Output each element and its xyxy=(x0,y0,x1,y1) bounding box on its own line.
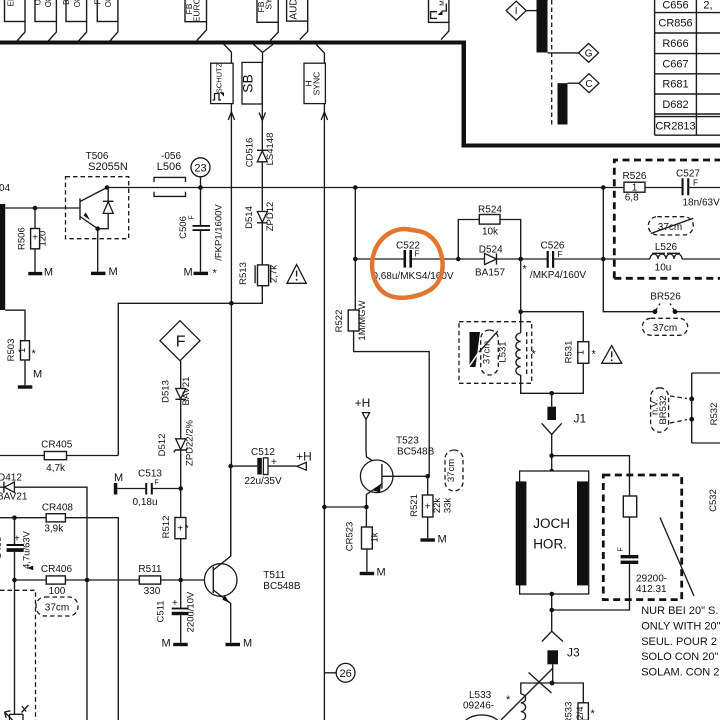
wire R503 bottom xyxy=(24,360,26,385)
thick bar left edge xyxy=(0,204,5,310)
svg-text:R533: R533 xyxy=(564,702,575,720)
svg-text:F: F xyxy=(693,178,698,188)
svg-text:29200-: 29200- xyxy=(636,574,667,585)
svg-text:SCHUTZ: SCHUTZ xyxy=(215,62,224,93)
wire stub box E3 xyxy=(78,22,87,42)
svg-text:M: M xyxy=(162,638,171,650)
connector box FB EURO xyxy=(184,0,207,22)
inductor L533 xyxy=(463,690,526,720)
damper diode T506 xyxy=(98,188,114,229)
resistor R513 (safety) xyxy=(238,262,280,286)
wire collector T523 xyxy=(366,420,382,467)
resistor kit xyxy=(623,496,636,517)
wire C511 bottom xyxy=(180,615,182,643)
wire stub box E2 xyxy=(48,22,57,42)
wire schutz line to T511 - already drawn above continues xyxy=(230,303,233,556)
wire base T506 xyxy=(5,207,80,209)
wire stub box E1 xyxy=(17,22,26,42)
svg-text:*: * xyxy=(185,524,189,535)
svg-text:EURO: EURO xyxy=(192,0,202,22)
svg-text:F: F xyxy=(176,334,186,351)
diode D514 ZPD12 xyxy=(244,202,276,232)
svg-text:F: F xyxy=(155,480,159,487)
connector box E2 xyxy=(34,0,57,22)
svg-text:2/4: 2/4 xyxy=(575,706,586,719)
node dot JOCH bottom edge xyxy=(549,592,554,597)
svg-text:SOLAM. CON 2: SOLAM. CON 2 xyxy=(641,667,719,679)
+H arrow C512 xyxy=(296,450,312,471)
node dot J3 top xyxy=(549,608,554,613)
wire emitter row xyxy=(324,507,366,527)
svg-text:M: M xyxy=(438,533,447,545)
svg-text:M: M xyxy=(243,638,252,650)
node dot L533 top xyxy=(550,681,555,686)
wire main horizontal y187 left part xyxy=(107,187,185,189)
wire vertical R526 to C526 row xyxy=(602,188,604,260)
wire R526 row xyxy=(603,187,720,189)
svg-text:23: 23 xyxy=(194,162,206,174)
svg-text:BC548B: BC548B xyxy=(263,581,301,592)
connector J3 xyxy=(542,610,580,664)
svg-text:R506: R506 xyxy=(17,227,28,250)
node dot JOCH top edge xyxy=(549,469,554,474)
svg-text:37cm: 37cm xyxy=(446,459,457,482)
node dot R513 bottom junction xyxy=(229,301,234,306)
ground M T506 xyxy=(91,266,118,278)
svg-text:C408: C408 xyxy=(0,537,4,560)
thick vertical border bar xyxy=(462,41,467,145)
terminal circle 23 xyxy=(191,158,210,188)
svg-text:CR406: CR406 xyxy=(41,564,73,575)
wire kit r to c xyxy=(629,517,631,555)
svg-text:C511: C511 xyxy=(156,600,167,622)
connector box SCHUTZ xyxy=(211,62,233,103)
svg-text:R524: R524 xyxy=(478,204,502,215)
node dot R511 junction xyxy=(178,578,183,583)
dashed wire lower left xyxy=(0,590,36,720)
svg-text:CR856: CR856 xyxy=(658,18,692,30)
svg-text:330: 330 xyxy=(144,586,161,597)
svg-text:26: 26 xyxy=(339,668,351,680)
bridge BR526 xyxy=(650,292,681,315)
svg-text:C656: C656 xyxy=(662,0,688,12)
capacitor C506 xyxy=(178,204,225,261)
wire C506 top xyxy=(200,188,202,226)
connector box E1 xyxy=(5,0,26,22)
capacitor C408 4,7u/63V xyxy=(0,530,33,569)
svg-text:LS4148: LS4148 xyxy=(265,133,276,166)
svg-text:/MKP4/160V: /MKP4/160V xyxy=(530,270,586,281)
resistor R503 xyxy=(6,339,42,381)
svg-text:R531: R531 xyxy=(564,341,575,364)
ground M R521 xyxy=(420,533,446,545)
resistor CR406 xyxy=(41,564,73,597)
wire F to D513 xyxy=(180,361,182,389)
svg-text:+: + xyxy=(172,598,178,609)
ground plate C513 xyxy=(114,483,118,495)
svg-text:C513: C513 xyxy=(138,468,162,479)
svg-text:L526: L526 xyxy=(655,242,678,253)
svg-text:1k: 1k xyxy=(370,532,381,542)
svg-text:R511: R511 xyxy=(138,564,162,575)
transistor T523 xyxy=(360,436,434,507)
svg-text:412.31: 412.31 xyxy=(636,584,667,595)
svg-text:04: 04 xyxy=(0,183,11,194)
svg-text:CR408: CR408 xyxy=(42,503,74,514)
svg-text:*: * xyxy=(32,348,37,360)
svg-text:D682: D682 xyxy=(662,99,688,111)
correction wedge xyxy=(470,332,481,367)
node dot J1 top xyxy=(549,391,554,396)
node dot CR408 left xyxy=(12,515,17,520)
dashed box T506 xyxy=(66,177,129,239)
svg-text:22u/35V: 22u/35V xyxy=(244,476,282,487)
svg-text:NUR BEI 20" S.: NUR BEI 20" S. xyxy=(641,605,718,617)
dashed oval 37cm L531 xyxy=(481,330,499,375)
svg-text:1M/MGW: 1M/MGW xyxy=(357,300,368,340)
dashed oval 37cm lower left xyxy=(36,597,78,616)
capacitor kit xyxy=(618,547,639,564)
svg-text:R681: R681 xyxy=(662,79,688,91)
svg-text:JOCH: JOCH xyxy=(533,516,570,531)
arrow up h line xyxy=(321,112,327,120)
sb branch fork xyxy=(254,45,273,64)
ground M C511 xyxy=(162,638,188,650)
wire J1 to JOCH xyxy=(551,435,553,472)
wire R522 bottom to T523 base xyxy=(354,331,430,476)
svg-text:22k: 22k xyxy=(432,498,443,514)
zener D512 ZPD22 xyxy=(157,419,196,465)
dashed line top right xyxy=(551,0,553,126)
capacitor C512 xyxy=(231,447,297,487)
svg-text:BAV21: BAV21 xyxy=(0,492,28,503)
svg-text:1: 1 xyxy=(17,348,28,353)
resistor CR523 xyxy=(345,522,381,552)
svg-text:R526: R526 xyxy=(623,171,647,182)
node dot main wire R522 tap xyxy=(353,185,358,190)
svg-text:M: M xyxy=(33,369,42,381)
node dot L531 top xyxy=(518,309,523,314)
svg-text:L531: L531 xyxy=(498,341,509,362)
node dot T506 collector xyxy=(105,185,110,190)
svg-text:/FKP1/1600V: /FKP1/1600V xyxy=(214,204,225,261)
svg-text:C506: C506 xyxy=(178,216,189,239)
svg-text:*: * xyxy=(523,263,528,275)
svg-text:37cm: 37cm xyxy=(653,323,677,334)
svg-text:D514: D514 xyxy=(244,206,255,229)
svg-text:M: M xyxy=(439,0,446,5)
svg-text:33k: 33k xyxy=(443,498,454,514)
annotation orange circle around C522 xyxy=(372,229,443,298)
wire R524 loop xyxy=(458,220,520,260)
svg-text:D513: D513 xyxy=(160,380,171,403)
dashed oval 37cm BR526 xyxy=(642,318,687,335)
wire stub icon box xyxy=(441,22,449,39)
svg-text:1: 1 xyxy=(575,350,586,355)
resistor R521 xyxy=(409,494,454,517)
ground M R506 xyxy=(28,266,53,278)
diode D513 BAV21 xyxy=(160,377,192,406)
svg-text:*: * xyxy=(591,708,596,720)
svg-text:*: * xyxy=(532,349,537,361)
wire L531 top to R531 xyxy=(521,312,584,342)
capacitor C522 xyxy=(372,240,453,282)
wire R503 top xyxy=(5,310,25,341)
node dot R506 tap xyxy=(33,206,38,211)
arrow +H T523 xyxy=(362,413,369,420)
ground M T511 xyxy=(226,638,253,650)
svg-text:ZPD22/2%: ZPD22/2% xyxy=(185,419,196,465)
svg-text:CR523: CR523 xyxy=(345,522,356,552)
wire to J1 xyxy=(551,393,553,406)
svg-text:C512: C512 xyxy=(251,447,275,458)
svg-text:O8: O8 xyxy=(104,0,113,7)
slash through wedge and oval xyxy=(469,352,479,367)
wire R506 top xyxy=(34,208,36,229)
svg-text:T511: T511 xyxy=(263,570,285,581)
arrow down sb xyxy=(259,113,265,121)
connector J1 xyxy=(542,407,587,435)
svg-text:2,: 2, xyxy=(703,0,712,12)
wire I to bar xyxy=(526,10,536,12)
svg-text:*: * xyxy=(213,268,218,280)
connector box SB xyxy=(240,62,263,104)
ground M C506 xyxy=(184,267,218,280)
diamond I xyxy=(506,1,526,20)
svg-text:C: C xyxy=(585,79,592,90)
node dot CR406 left xyxy=(12,578,17,583)
resistor R531 xyxy=(564,341,597,364)
leader line kit note xyxy=(660,518,694,597)
svg-text:+: + xyxy=(14,534,20,545)
svg-text:ONLY WITH 20": ONLY WITH 20" xyxy=(641,620,720,632)
wire C506 bottom xyxy=(200,231,202,272)
svg-text:ZPD12: ZPD12 xyxy=(265,202,276,232)
parts table top right xyxy=(655,0,720,135)
svg-text:J1: J1 xyxy=(574,411,587,425)
svg-text:F: F xyxy=(189,215,196,219)
svg-text:C532: C532 xyxy=(708,489,719,512)
wire vertical to C522 row xyxy=(355,188,458,260)
svg-text:R532: R532 xyxy=(709,403,720,426)
svg-text:R666: R666 xyxy=(662,38,688,50)
svg-text:M: M xyxy=(377,567,386,579)
svg-text:220u/10V: 220u/10V xyxy=(185,591,196,632)
resistor R533 xyxy=(564,702,596,720)
hsync branch wire xyxy=(316,45,324,64)
warning triangle R513 xyxy=(287,265,306,284)
node dot R521 top xyxy=(425,474,430,479)
svg-text:R522: R522 xyxy=(334,310,345,333)
svg-text:+: + xyxy=(425,502,431,513)
svg-text:3,9k: 3,9k xyxy=(44,524,64,535)
svg-text:+: + xyxy=(177,524,183,535)
svg-text:6,8: 6,8 xyxy=(625,192,639,203)
connector box H SYNC xyxy=(304,63,326,103)
node dot JOCH top wire xyxy=(549,453,554,458)
wire stub FB S xyxy=(270,22,278,40)
resistor R511 xyxy=(138,564,162,597)
svg-text:F: F xyxy=(415,249,420,259)
svg-text:J3: J3 xyxy=(567,646,580,660)
capacitor C511 xyxy=(156,591,197,632)
svg-text:L533: L533 xyxy=(469,690,492,701)
svg-text:100: 100 xyxy=(49,586,66,597)
svg-text:I: I xyxy=(515,6,518,17)
svg-text:S2055N: S2055N xyxy=(88,161,128,173)
wire R506 bottom xyxy=(34,249,36,272)
svg-text:2,7k: 2,7k xyxy=(269,265,280,283)
svg-text:+H: +H xyxy=(355,396,371,410)
wire G to bar xyxy=(548,52,579,54)
wire cap 4u7 top xyxy=(14,518,16,544)
diode D412 BAV21 xyxy=(0,473,87,720)
thick bar top right 1 xyxy=(537,0,548,53)
node dot C513 junction xyxy=(178,486,183,491)
svg-text:37cm: 37cm xyxy=(482,341,493,364)
svg-text:SEUL. POUR 2: SEUL. POUR 2 xyxy=(641,636,717,648)
connector box FB S xyxy=(256,0,278,22)
adjust slash L533 xyxy=(501,669,553,720)
wire BR526 row xyxy=(603,259,720,312)
diode D524 BA157 xyxy=(458,245,520,279)
wire L531 bottom xyxy=(521,363,584,393)
footnote arrow CR406 xyxy=(27,566,33,571)
svg-text:SB: SB xyxy=(240,74,256,93)
dashed box L531 xyxy=(459,322,532,384)
svg-text:M: M xyxy=(44,266,53,278)
diamond C xyxy=(579,74,599,93)
svg-text:SY: SY xyxy=(264,0,274,10)
svg-text:R503: R503 xyxy=(6,339,17,362)
wire stub box E4 xyxy=(109,22,118,42)
wire main horizontal y187 continue xyxy=(185,187,603,189)
resistor R522 xyxy=(334,300,368,340)
svg-text:BR526: BR526 xyxy=(650,292,681,303)
svg-text:HOR.: HOR. xyxy=(533,537,567,552)
svg-text:R521: R521 xyxy=(409,494,420,517)
dashed box kit top right xyxy=(614,160,720,278)
svg-text:+H: +H xyxy=(296,450,312,464)
wire sb line + diode chain line xyxy=(231,62,262,303)
diamond G xyxy=(579,43,599,62)
svg-text:D512: D512 xyxy=(157,434,168,457)
svg-text:G: G xyxy=(585,49,593,60)
ground M CR523 xyxy=(360,567,386,579)
svg-text:F: F xyxy=(618,547,625,551)
node dot D412 column xyxy=(85,578,90,583)
svg-text:120: 120 xyxy=(38,231,49,247)
svg-text:F8: F8 xyxy=(93,0,102,5)
schutz branch wire xyxy=(224,44,232,63)
diamond F xyxy=(160,321,200,361)
connector box E4 xyxy=(93,0,118,22)
thick bar top right 2 xyxy=(558,83,568,124)
node dot C522 row left... xyxy=(353,257,358,262)
capacitor C513 xyxy=(117,468,180,508)
yoke box JOCH HOR xyxy=(516,471,589,594)
svg-text:BAV21: BAV21 xyxy=(181,377,192,406)
svg-text:09246-: 09246- xyxy=(463,701,494,712)
svg-text:R513: R513 xyxy=(238,262,249,285)
connector box E3 xyxy=(62,0,87,22)
wire CR406/R511 row xyxy=(15,579,214,581)
connector box AUDIO xyxy=(287,0,308,21)
svg-text:BR532: BR532 xyxy=(658,395,669,424)
node dots BR532 xyxy=(689,397,694,402)
node dot C526/L526 xyxy=(601,257,606,262)
svg-text:18n/63V/FKP2: 18n/63V/FKP2 xyxy=(683,198,720,209)
dashed box 20 inch kit xyxy=(603,475,681,600)
wire CR405 xyxy=(0,455,118,457)
svg-text:0,18u: 0,18u xyxy=(132,497,157,508)
ground R503 xyxy=(18,385,33,388)
svg-text:10u: 10u xyxy=(655,263,672,274)
wire stub FB EURO xyxy=(197,22,207,41)
wire R512 bottom xyxy=(180,539,182,608)
svg-text:O8: O8 xyxy=(73,0,82,7)
svg-text:BA157: BA157 xyxy=(475,268,505,279)
resistor R524 xyxy=(478,204,502,237)
svg-text:D524: D524 xyxy=(479,245,503,256)
wire D524 node down to L531 xyxy=(520,259,522,333)
wire CR523 bottom xyxy=(366,549,368,572)
node dot main wire R526 tap xyxy=(601,185,606,190)
svg-text:BC548B: BC548B xyxy=(397,446,435,457)
warning triangle R531 xyxy=(602,346,622,364)
node dot 23 junction xyxy=(198,185,203,190)
wire JOCH bottom xyxy=(552,564,630,610)
capacitor C526 xyxy=(521,241,604,282)
wire CR408 xyxy=(0,518,118,720)
svg-text:SYNC: SYNC xyxy=(312,72,322,96)
svg-text:R512: R512 xyxy=(161,516,172,539)
bus (thick horizontal supply bar) xyxy=(0,41,466,45)
node dot C522 right xyxy=(456,257,461,262)
wire stub AUDIO xyxy=(300,21,308,39)
svg-text:4,7k: 4,7k xyxy=(46,463,66,474)
terminal circle 26 xyxy=(324,663,355,682)
resistor CR408 xyxy=(42,503,74,535)
capacitor C527 xyxy=(676,169,720,209)
node dot T506 emitter xyxy=(95,226,100,231)
resistor CR405 xyxy=(41,440,73,474)
wire R522 top xyxy=(354,259,356,310)
wire schutz line down xyxy=(230,104,232,304)
node dot D524 out xyxy=(518,257,523,262)
bridge BR532 wires xyxy=(692,373,720,443)
wire R521 bottom xyxy=(427,517,429,538)
svg-text:M: M xyxy=(114,472,123,484)
svg-text:L506: L506 xyxy=(157,161,181,173)
thick horizontal border bar right xyxy=(462,144,720,148)
svg-text:CR2813: CR2813 xyxy=(655,121,695,133)
dashed oval n.V. BR532 xyxy=(650,388,688,432)
svg-text:+: + xyxy=(271,457,277,468)
svg-text:CR405: CR405 xyxy=(41,440,73,451)
wire to 20inch kit right xyxy=(552,456,630,496)
svg-text:CD516: CD516 xyxy=(244,138,255,168)
svg-text:SOLO CON 20": SOLO CON 20" xyxy=(641,651,718,663)
note text NUR BEI xyxy=(641,605,720,679)
resistor R506 xyxy=(17,227,49,250)
inductor L531 xyxy=(516,332,527,375)
arrow up schutz xyxy=(228,112,234,120)
adjust arrow bottom left xyxy=(5,705,29,720)
svg-text:B8: B8 xyxy=(62,0,71,5)
svg-text:F: F xyxy=(558,249,563,259)
svg-text:*: * xyxy=(592,349,597,361)
